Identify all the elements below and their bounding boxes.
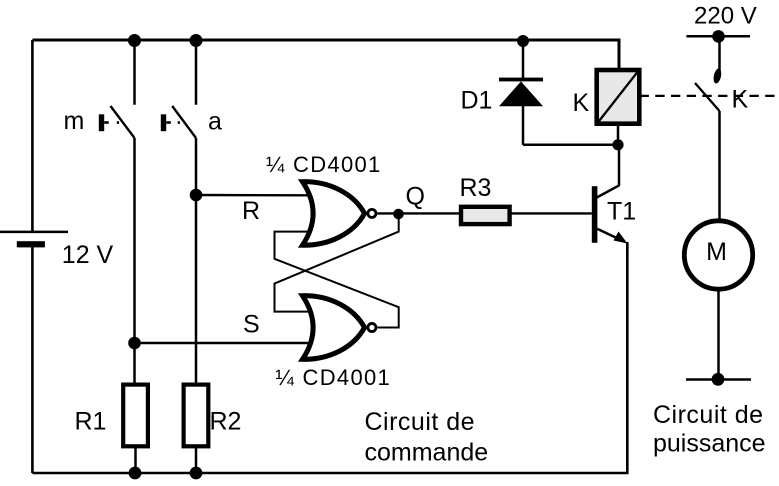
svg-text:R: R xyxy=(242,197,260,225)
wire feedback Q to lower gate xyxy=(275,214,399,312)
wire feedback lower gate output to upper gate xyxy=(275,232,399,328)
svg-text:Q: Q xyxy=(406,183,425,211)
node S xyxy=(128,337,141,350)
node bottom R1 xyxy=(129,467,142,480)
svg-text:a: a xyxy=(208,108,222,136)
svg-text:K: K xyxy=(573,89,590,117)
svg-text:m: m xyxy=(64,107,85,135)
svg-text:D1: D1 xyxy=(461,87,493,115)
switch K power side xyxy=(695,36,749,220)
switch a xyxy=(161,106,222,138)
resistor R1 xyxy=(75,385,148,473)
svg-text:T1: T1 xyxy=(607,198,636,226)
svg-text:R2: R2 xyxy=(210,408,242,436)
motor M xyxy=(684,221,752,378)
svg-text:Circuit de: Circuit de xyxy=(653,401,764,429)
svg-text:Circuit de: Circuit de xyxy=(365,408,476,436)
relay K coil xyxy=(573,70,640,145)
svg-text:R3: R3 xyxy=(460,174,492,202)
battery 12 V xyxy=(0,232,114,269)
wire top rail xyxy=(32,40,619,70)
svg-text:¼ CD4001: ¼ CD4001 xyxy=(266,152,382,177)
resistor R3 xyxy=(460,174,510,224)
wire D1 to relay bottom xyxy=(523,144,618,147)
wire R input xyxy=(196,195,310,225)
wire m branch xyxy=(133,40,136,385)
node top D1 xyxy=(517,35,529,47)
node relay emitter junction xyxy=(612,139,623,150)
wire Q output xyxy=(377,183,461,214)
label circuit de commande xyxy=(365,408,489,467)
wire a branch xyxy=(195,40,198,385)
svg-text:12 V: 12 V xyxy=(62,241,114,269)
svg-text:220 V: 220 V xyxy=(694,3,757,30)
resistor R2 xyxy=(184,385,242,473)
svg-text:K: K xyxy=(732,86,749,114)
wire base xyxy=(510,212,592,214)
wire bottom rail xyxy=(32,244,627,473)
wire left rail xyxy=(31,40,34,473)
label 220 V xyxy=(694,3,757,30)
node top a xyxy=(190,34,203,47)
svg-text:commande: commande xyxy=(365,439,489,467)
dashed mechanical link xyxy=(640,95,777,97)
node R xyxy=(190,189,203,202)
node Q xyxy=(393,209,404,220)
node top m xyxy=(128,34,141,47)
label circuit de puissance xyxy=(653,401,766,457)
transistor T1 xyxy=(592,145,636,250)
svg-text:¼ CD4001: ¼ CD4001 xyxy=(276,365,392,390)
op-amp U1 NOR gate top xyxy=(266,152,382,245)
diode D1 xyxy=(461,40,544,145)
terminal motor bottom xyxy=(686,373,751,386)
op-amp U2 NOR gate bottom xyxy=(276,296,392,390)
node bottom R2 xyxy=(190,467,203,480)
terminal 220V xyxy=(686,30,750,43)
svg-text:R1: R1 xyxy=(75,408,107,436)
svg-text:puissance: puissance xyxy=(653,429,766,457)
switch m xyxy=(64,106,135,138)
svg-text:M: M xyxy=(706,238,727,266)
svg-text:S: S xyxy=(243,311,260,339)
wire S input xyxy=(135,311,311,344)
